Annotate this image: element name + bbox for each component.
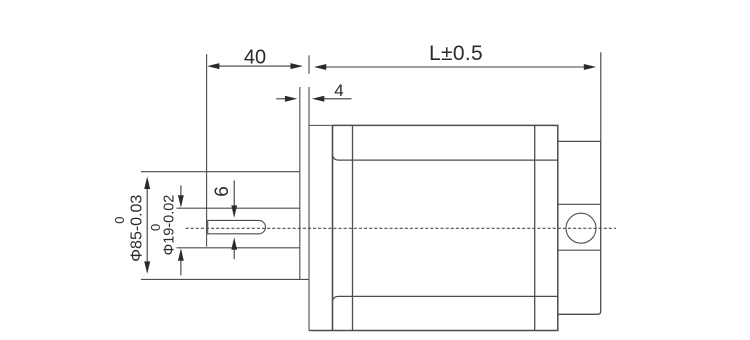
dimension 4	[276, 96, 351, 102]
svg-text:L±0.5: L±0.5	[429, 42, 483, 65]
svg-text:0: 0	[112, 217, 127, 224]
dimension 6	[231, 181, 237, 260]
shaft bottom line	[177, 247, 300, 249]
flange rear line	[308, 55, 310, 330]
dimension dia19	[178, 185, 184, 275]
flange front face line	[299, 87, 301, 279]
boss bottom line	[141, 278, 309, 280]
body lower flat line	[333, 296, 558, 301]
body upper flat line	[333, 156, 558, 161]
connector shelf upper line	[558, 203, 601, 205]
connector circle	[566, 213, 596, 243]
dimension dia85	[144, 177, 150, 274]
motor body outline	[309, 125, 558, 330]
shaft top line	[177, 207, 300, 209]
connector shelf lower line	[558, 249, 601, 251]
rear housing outline	[558, 141, 601, 314]
svg-text:4: 4	[334, 81, 343, 100]
svg-text:40: 40	[244, 47, 266, 69]
dimension L±0.5	[314, 52, 601, 141]
centerline	[186, 227, 617, 229]
keyway slot	[208, 220, 266, 233]
svg-text:Φ85-0.03: Φ85-0.03	[129, 195, 146, 262]
svg-text:Φ19-0.02: Φ19-0.02	[161, 195, 177, 256]
boss top line	[141, 171, 300, 173]
front end-cap boundary line	[352, 125, 354, 330]
rear end-cap boundary line	[534, 125, 536, 330]
svg-text:6: 6	[212, 186, 233, 197]
boss front face	[206, 54, 208, 246]
dimension 40	[207, 63, 303, 69]
